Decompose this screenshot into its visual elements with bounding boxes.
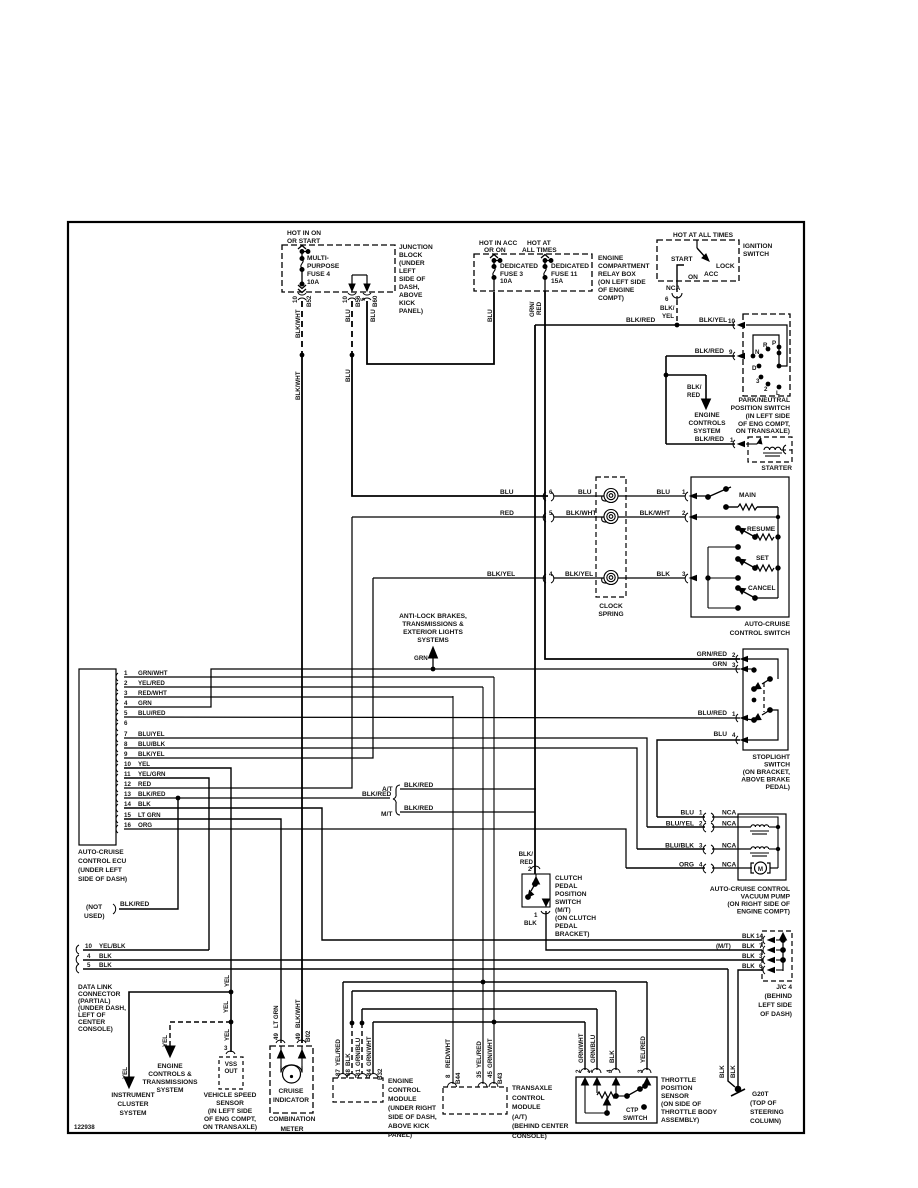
svg-text:POSITION: POSITION — [661, 1085, 693, 1092]
TPS label — [661, 1077, 718, 1124]
svg-text:B60: B60 — [372, 295, 379, 307]
svg-text:CTP: CTP — [626, 1107, 638, 1114]
svg-text:B43: B43 — [497, 1072, 504, 1084]
svg-text:3: 3 — [224, 1045, 228, 1052]
svg-text:ON TRANSAXLE): ON TRANSAXLE) — [203, 1124, 257, 1131]
svg-text:(ON BRACKET,: (ON BRACKET, — [743, 769, 790, 776]
svg-text:CLOCK: CLOCK — [599, 603, 623, 610]
svg-text:CONNECTOR: CONNECTOR — [78, 991, 121, 998]
svg-text:CLUTCH: CLUTCH — [555, 875, 582, 882]
wire pin10 YEL to data link connector — [124, 768, 231, 992]
clock spring coil row 3 — [602, 571, 618, 585]
svg-text:(PARTIAL): (PARTIAL) — [78, 998, 110, 1005]
svg-text:7: 7 — [124, 731, 128, 738]
svg-text:SYSTEMS: SYSTEMS — [417, 637, 449, 644]
svg-text:STARTER: STARTER — [761, 465, 792, 472]
svg-text:RED: RED — [687, 392, 701, 399]
svg-text:METER: METER — [280, 1126, 303, 1133]
splice dot BLK/RED — [664, 373, 669, 378]
svg-text:BLK/YEL: BLK/YEL — [487, 571, 515, 578]
svg-text:12: 12 — [124, 781, 131, 788]
svg-text:IGNITION: IGNITION — [743, 243, 773, 250]
engine compartment relay box — [474, 254, 592, 291]
svg-text:6: 6 — [759, 963, 763, 970]
wire pin15 LT GRN to combination meter — [124, 819, 281, 1043]
wire pin2 YEL/RED to TCM 35 — [124, 686, 483, 688]
junction block box — [282, 245, 395, 292]
clutch pedal position switch box — [522, 874, 550, 907]
starter box — [748, 437, 792, 462]
svg-text:81: 81 — [355, 1069, 362, 1076]
clutch switch contacts — [526, 882, 538, 900]
TCM label — [512, 1085, 569, 1140]
svg-text:OUT: OUT — [224, 1068, 237, 1075]
svg-text:PARK/NEUTRAL: PARK/NEUTRAL — [738, 397, 790, 404]
svg-text:INDICATOR: INDICATOR — [273, 1097, 309, 1104]
svg-text:7: 7 — [759, 943, 763, 950]
pump motor — [751, 862, 778, 874]
svg-text:GRN/: GRN/ — [529, 301, 536, 317]
vehicle speed sensor label — [203, 1092, 257, 1131]
svg-text:1: 1 — [730, 437, 734, 444]
svg-text:BLK: BLK — [524, 920, 537, 927]
svg-text:DEDICATED: DEDICATED — [500, 263, 538, 270]
svg-text:LEFT SIDE: LEFT SIDE — [758, 1002, 792, 1009]
svg-text:SWITCH: SWITCH — [623, 1115, 648, 1122]
svg-text:TRANSAXLE: TRANSAXLE — [512, 1085, 553, 1092]
ignition switch box — [657, 240, 739, 281]
svg-text:10A: 10A — [500, 278, 512, 285]
svg-text:ENGINE: ENGINE — [694, 412, 720, 419]
svg-text:OF DASH): OF DASH) — [760, 1011, 792, 1018]
ignition rotor arrow — [697, 240, 709, 261]
svg-text:MODULE: MODULE — [512, 1104, 541, 1111]
anti-lock brakes systems label — [399, 613, 467, 644]
wire BLK/RED M/T branch to clutch switch — [400, 811, 535, 813]
auto-cruise control ECU box — [79, 669, 116, 845]
wire pin3 RED/WHT to TCM 8 — [124, 696, 453, 698]
svg-text:STOPLIGHT: STOPLIGHT — [752, 754, 790, 761]
svg-text:BLU: BLU — [656, 489, 670, 496]
svg-text:BLK: BLK — [742, 943, 755, 950]
svg-text:CONTROL SWITCH: CONTROL SWITCH — [730, 630, 791, 637]
stoplight upper switch — [746, 659, 778, 691]
svg-text:CONTROL: CONTROL — [512, 1095, 545, 1102]
auto-cruise control switch label — [730, 621, 791, 637]
svg-text:A/T: A/T — [382, 786, 393, 793]
wire GRN/WHT net row — [373, 1021, 585, 1023]
wire RED/WHT down to TCM 8 — [452, 696, 454, 1084]
ECU label — [78, 849, 127, 883]
svg-text:(ON SIDE OF: (ON SIDE OF — [661, 1101, 701, 1108]
dashed YEL branch to engine controls and transmissions — [165, 1022, 231, 1057]
not used connector — [84, 904, 105, 920]
svg-text:3: 3 — [124, 690, 128, 697]
wire BLK/YEL row3 — [373, 577, 685, 579]
svg-text:J/C 4: J/C 4 — [776, 984, 792, 991]
svg-text:15A: 15A — [551, 278, 563, 285]
connector arrow pin 10 — [733, 321, 745, 329]
svg-text:45: 45 — [487, 1071, 494, 1078]
svg-text:3: 3 — [756, 378, 760, 385]
TPS pin connectors with entry arrows — [581, 1069, 652, 1074]
wire BLU B60 down/right/up to fuse 3 — [367, 292, 494, 364]
svg-text:CONTROLS: CONTROLS — [689, 420, 727, 427]
svg-text:CRUISE: CRUISE — [279, 1088, 305, 1095]
svg-text:D: D — [752, 365, 757, 372]
splice dot BLU — [350, 353, 355, 358]
svg-text:BLU: BLU — [680, 810, 694, 817]
wire BLK DLC 5 to ground — [728, 969, 735, 1087]
stoplight gang dashed link — [763, 683, 765, 712]
svg-text:8: 8 — [124, 741, 128, 748]
svg-text:ABOVE KICK: ABOVE KICK — [388, 1123, 430, 1130]
DLC pin 4 BLK row to J/C 4 pin 3 — [76, 955, 79, 964]
svg-text:KICK: KICK — [399, 300, 415, 307]
svg-text:YEL: YEL — [138, 761, 150, 768]
svg-text:COMBINATION: COMBINATION — [269, 1116, 316, 1123]
svg-text:PEDAL: PEDAL — [555, 923, 577, 930]
svg-text:USED): USED) — [84, 913, 105, 920]
svg-text:B52: B52 — [306, 295, 313, 307]
svg-text:(UNDER LEFT: (UNDER LEFT — [78, 867, 122, 874]
svg-text:RED: RED — [536, 301, 543, 315]
svg-text:CONTROL ECU: CONTROL ECU — [78, 858, 126, 865]
svg-text:BLK/RED: BLK/RED — [626, 317, 656, 324]
DLC pin 10 YEL/BLK row — [76, 945, 79, 954]
MAIN resistor — [724, 504, 778, 510]
svg-text:SWITCH: SWITCH — [743, 251, 769, 258]
svg-text:LEFT: LEFT — [399, 268, 415, 275]
wire pin14 BLK to J/C 4 pin 14 — [124, 808, 762, 940]
junction block internal bus to pins B56/B60 — [349, 275, 370, 291]
wire pin9 BLK/YEL to clock spring row 3 — [124, 578, 373, 758]
wire RED/BLKWHT row2 — [352, 516, 685, 518]
svg-text:49: 49 — [295, 1033, 302, 1040]
engine controls and transmissions system label — [143, 1063, 199, 1094]
svg-text:BLK/: BLK/ — [519, 851, 534, 858]
svg-text:THROTTLE BODY: THROTTLE BODY — [661, 1109, 718, 1116]
svg-text:B44: B44 — [455, 1072, 462, 1084]
wire pin11 YEL/GRN to DLC 10 — [124, 778, 209, 950]
svg-text:OF ENG COMPT,: OF ENG COMPT, — [204, 1116, 256, 1123]
svg-text:BLK/YEL: BLK/YEL — [699, 317, 727, 324]
svg-text:10: 10 — [85, 943, 92, 950]
svg-text:4: 4 — [124, 700, 128, 707]
svg-text:P: P — [772, 340, 776, 347]
svg-text:4: 4 — [87, 953, 91, 960]
svg-text:BLK/YEL: BLK/YEL — [565, 571, 593, 578]
svg-text:14: 14 — [124, 801, 131, 808]
branch GRN to anti-lock systems — [429, 647, 438, 669]
svg-text:BLU: BLU — [345, 309, 352, 322]
wire pin1 GRN/WHT to TCM 45 — [124, 676, 494, 678]
svg-text:(TOP OF: (TOP OF — [750, 1100, 777, 1107]
svg-text:LT GRN: LT GRN — [138, 812, 161, 819]
svg-text:CENTER: CENTER — [78, 1019, 105, 1026]
data link connector labels — [78, 984, 126, 1033]
svg-text:N: N — [755, 349, 760, 356]
svg-text:GRN/WHT: GRN/WHT — [366, 1036, 373, 1066]
splice dot GRN — [431, 667, 436, 672]
wire pin5 BLU/RED to stoplight 1 — [124, 717, 740, 718]
transaxle control module box — [443, 1087, 507, 1114]
stoplight lower switch — [746, 708, 778, 740]
svg-text:ENGINE COMPT): ENGINE COMPT) — [737, 909, 790, 916]
svg-text:GRN/BLU: GRN/BLU — [590, 1034, 597, 1063]
svg-text:RED: RED — [500, 510, 514, 517]
wire BLK/RED 2 into clutch switch — [519, 851, 534, 866]
svg-text:HOT IN ON: HOT IN ON — [287, 230, 321, 237]
svg-text:10: 10 — [292, 296, 299, 303]
relay box label — [598, 255, 650, 302]
svg-text:MAIN: MAIN — [739, 492, 756, 499]
svg-text:1: 1 — [732, 711, 736, 718]
svg-text:CONSOLE): CONSOLE) — [512, 1133, 547, 1140]
svg-text:SENSOR: SENSOR — [216, 1100, 244, 1107]
svg-text:3: 3 — [759, 953, 763, 960]
svg-text:RED/WHT: RED/WHT — [445, 1039, 452, 1068]
svg-text:CONSOLE): CONSOLE) — [78, 1026, 113, 1033]
combination meter label — [269, 1116, 316, 1133]
svg-text:10: 10 — [124, 761, 131, 768]
svg-text:LT GRN: LT GRN — [273, 1005, 280, 1028]
wire GRN/BLU to ECM 81 (dashed below splice) — [361, 1009, 363, 1023]
svg-text:SIDE OF DASH,: SIDE OF DASH, — [388, 1114, 437, 1121]
wire GRN/WHT to ECM 84 — [372, 1022, 374, 1074]
svg-text:BLK: BLK — [99, 962, 112, 969]
wire YEL/RED to ECM 87 — [342, 982, 344, 1074]
svg-text:START: START — [671, 256, 693, 263]
svg-text:RESUME: RESUME — [747, 526, 776, 533]
svg-text:STEERING: STEERING — [750, 1109, 784, 1116]
fuse 4 (multi-purpose fuse 4 10A) — [298, 246, 310, 293]
svg-text:49: 49 — [273, 1033, 280, 1040]
svg-text:2: 2 — [528, 866, 532, 873]
stoplight open contact dot — [752, 698, 757, 703]
svg-text:EXTERIOR LIGHTS: EXTERIOR LIGHTS — [403, 629, 463, 636]
svg-text:GRN: GRN — [138, 700, 152, 707]
svg-text:ACC: ACC — [704, 271, 719, 278]
wire pin4 GRN to stoplight 3 — [124, 669, 740, 707]
vacuum pump label — [710, 886, 791, 916]
wire BLU splice down to clock spring row 1 — [352, 355, 548, 496]
svg-text:CLUSTER: CLUSTER — [117, 1101, 148, 1108]
svg-text:(ON CLUTCH: (ON CLUTCH — [555, 915, 596, 922]
ECU pin connectors — [116, 673, 118, 833]
svg-text:OF ENG COMPT,: OF ENG COMPT, — [738, 421, 790, 428]
svg-text:ON: ON — [688, 274, 698, 281]
svg-text:2: 2 — [764, 386, 768, 393]
svg-text:(NOT: (NOT — [86, 904, 102, 911]
svg-text:5: 5 — [87, 962, 91, 969]
wire GRN/RED fuse 11 down to stoplight switch row — [545, 291, 740, 659]
switch right bus — [777, 507, 779, 598]
svg-text:SIDE OF DASH): SIDE OF DASH) — [78, 876, 127, 883]
svg-text:RED: RED — [138, 781, 152, 788]
cruise indicator label — [273, 1088, 309, 1104]
wire GRN/BLU net row — [362, 1008, 597, 1010]
svg-text:BLOCK: BLOCK — [399, 252, 423, 259]
ECM label — [388, 1078, 437, 1139]
border frame — [68, 222, 804, 1133]
auto-cruise control switch box — [691, 477, 789, 617]
pump internal top wire to bus — [738, 817, 778, 868]
connector 10 B56 — [348, 293, 356, 300]
svg-text:FUSE 4: FUSE 4 — [307, 271, 330, 278]
feed label HOT IN ON OR START — [287, 230, 321, 245]
MAIN switch — [691, 487, 731, 500]
svg-text:9: 9 — [729, 349, 733, 356]
svg-text:POSITION SWITCH: POSITION SWITCH — [731, 405, 791, 412]
svg-text:BLK: BLK — [99, 953, 112, 960]
svg-text:(M/T): (M/T) — [555, 907, 571, 914]
ignition START feed line — [677, 265, 684, 292]
park/neutral switch label — [731, 397, 791, 435]
svg-text:ANTI-LOCK BRAKES,: ANTI-LOCK BRAKES, — [399, 613, 467, 620]
svg-text:PURPOSE: PURPOSE — [307, 263, 340, 270]
svg-text:SENSOR: SENSOR — [661, 1093, 689, 1100]
svg-text:TRANSMISSIONS: TRANSMISSIONS — [143, 1079, 199, 1086]
svg-text:(UNDER DASH,: (UNDER DASH, — [78, 1005, 126, 1012]
svg-text:BLU: BLU — [713, 731, 727, 738]
svg-text:LEFT OF: LEFT OF — [78, 1012, 105, 1019]
switch connector row2 — [685, 513, 696, 522]
svg-text:OR START: OR START — [287, 238, 320, 245]
svg-text:M: M — [758, 866, 763, 873]
auto-cruise control vacuum pump box — [738, 814, 786, 880]
feed label HOT IN ACC OR ON — [479, 240, 517, 254]
stoplight switch box — [743, 649, 788, 750]
svg-text:5: 5 — [360, 297, 367, 301]
svg-text:HOT AT: HOT AT — [527, 240, 551, 247]
wire pin7 BLU/YEL to pump 2 — [124, 738, 647, 827]
YEL splice dot to instrument cluster — [229, 990, 234, 995]
J/C 4 internal bus — [780, 933, 787, 971]
stoplight switch label — [741, 754, 790, 791]
dedicated fuse 3 10A — [490, 255, 502, 292]
svg-text:YEL: YEL — [162, 1035, 169, 1047]
throttle position sensor box — [576, 1077, 657, 1123]
svg-text:GRN/WHT: GRN/WHT — [138, 670, 168, 677]
svg-text:L: L — [776, 390, 780, 397]
clock spring box — [596, 477, 626, 597]
TPS potentiometer — [585, 1082, 618, 1115]
svg-text:PEDAL): PEDAL) — [765, 784, 790, 791]
wire BLK/RED down from N row — [665, 356, 667, 444]
svg-text:ABOVE BRAKE: ABOVE BRAKE — [741, 777, 790, 784]
svg-text:YEL: YEL — [662, 313, 674, 320]
svg-text:YEL: YEL — [223, 1001, 230, 1013]
CTP switch label — [623, 1107, 648, 1122]
svg-text:BLK/: BLK/ — [660, 305, 675, 312]
wire BLK to ECM 88 (dashed below splice) — [351, 991, 353, 1023]
svg-text:HOT AT ALL TIMES: HOT AT ALL TIMES — [673, 232, 734, 239]
inline connector row1 — [543, 492, 554, 501]
svg-text:ALL TIMES: ALL TIMES — [522, 247, 557, 254]
svg-text:BLK: BLK — [345, 1053, 352, 1066]
clock spring coil row 1 — [602, 489, 618, 503]
starter solenoid coil — [746, 438, 792, 456]
wire GRN/WHT down to TCM 45 — [493, 677, 495, 1084]
svg-text:122938: 122938 — [74, 1124, 95, 1131]
svg-text:BLK/RED: BLK/RED — [120, 901, 150, 908]
A/T M/T brace — [393, 785, 400, 815]
svg-text:ABOVE: ABOVE — [399, 292, 423, 299]
svg-text:(UNDER: (UNDER — [399, 260, 425, 267]
svg-text:YEL/RED: YEL/RED — [640, 1036, 647, 1063]
wire YEL branch to instrument cluster — [124, 992, 231, 1088]
svg-text:BLU: BLU — [370, 309, 377, 322]
svg-text:BLK: BLK — [609, 1050, 616, 1063]
svg-text:GRN/WHT: GRN/WHT — [487, 1038, 494, 1068]
svg-text:CONTROL: CONTROL — [388, 1087, 421, 1094]
svg-text:PANEL): PANEL) — [399, 308, 423, 315]
svg-text:MULTI-: MULTI- — [307, 255, 329, 262]
svg-text:BLK/RED: BLK/RED — [404, 782, 434, 789]
ignition switch contacts START LOCK ON ACC — [671, 256, 735, 281]
svg-text:ENGINE: ENGINE — [388, 1078, 414, 1085]
svg-text:B02: B02 — [305, 1030, 312, 1042]
svg-text:THROTTLE: THROTTLE — [661, 1077, 697, 1084]
svg-text:BLK/WHT: BLK/WHT — [295, 371, 302, 400]
svg-text:BLK/RED: BLK/RED — [695, 348, 725, 355]
svg-text:DEDICATED: DEDICATED — [551, 263, 589, 270]
svg-text:GRN/WHT: GRN/WHT — [578, 1033, 585, 1063]
wire YEL between splices — [230, 992, 232, 1022]
svg-text:BLK: BLK — [656, 571, 670, 578]
clock spring label — [598, 603, 623, 618]
svg-text:4: 4 — [549, 571, 553, 578]
svg-text:BLK/WHT: BLK/WHT — [295, 999, 302, 1028]
svg-text:(BEHIND CENTER: (BEHIND CENTER — [512, 1123, 569, 1130]
svg-text:BLU: BLU — [345, 369, 352, 382]
combination meter box — [270, 1046, 313, 1113]
svg-text:4: 4 — [732, 732, 736, 739]
svg-text:1: 1 — [534, 912, 538, 919]
svg-text:9: 9 — [124, 751, 128, 758]
svg-text:BRACKET): BRACKET) — [555, 931, 589, 938]
svg-text:DATA LINK: DATA LINK — [78, 984, 113, 991]
svg-text:AUTO-CRUISE CONTROL: AUTO-CRUISE CONTROL — [710, 886, 790, 893]
connector 5 B60 — [363, 293, 371, 300]
row2 wire to bus — [691, 516, 778, 518]
branch to engine controls system — [666, 375, 711, 409]
svg-text:ON TRANSAXLE): ON TRANSAXLE) — [736, 428, 790, 435]
pump solenoid coil 1 — [750, 825, 778, 834]
svg-text:SYSTEM: SYSTEM — [693, 428, 721, 435]
svg-text:BLU: BLU — [487, 309, 494, 322]
wire YEL/RED to TPS 3 — [646, 982, 648, 1070]
svg-text:YEL/RED: YEL/RED — [138, 680, 165, 687]
wire BLU stoplight 4 to pump 1 — [657, 740, 740, 817]
svg-text:GRN: GRN — [414, 655, 428, 662]
wire BLK/YEL ignition to splice (dashed) — [676, 300, 678, 325]
svg-text:15: 15 — [124, 812, 131, 819]
ignition switch label — [743, 243, 773, 258]
wire pin13 BLK/RED to A/T-M/T brace — [124, 797, 390, 799]
vehicle speed sensor box VSS OUT — [219, 1057, 243, 1089]
svg-text:(IN LEFT SIDE: (IN LEFT SIDE — [208, 1108, 253, 1115]
svg-text:SYSTEM: SYSTEM — [119, 1110, 147, 1117]
wire BLK/RED 1 to starter — [666, 443, 735, 445]
svg-text:GRN/BLU: GRN/BLU — [355, 1037, 362, 1066]
svg-text:RELAY BOX: RELAY BOX — [598, 271, 636, 278]
svg-text:11: 11 — [124, 771, 131, 778]
svg-text:5: 5 — [124, 710, 128, 717]
dedicated fuse 11 15A — [541, 255, 553, 292]
svg-text:SET: SET — [756, 555, 769, 562]
